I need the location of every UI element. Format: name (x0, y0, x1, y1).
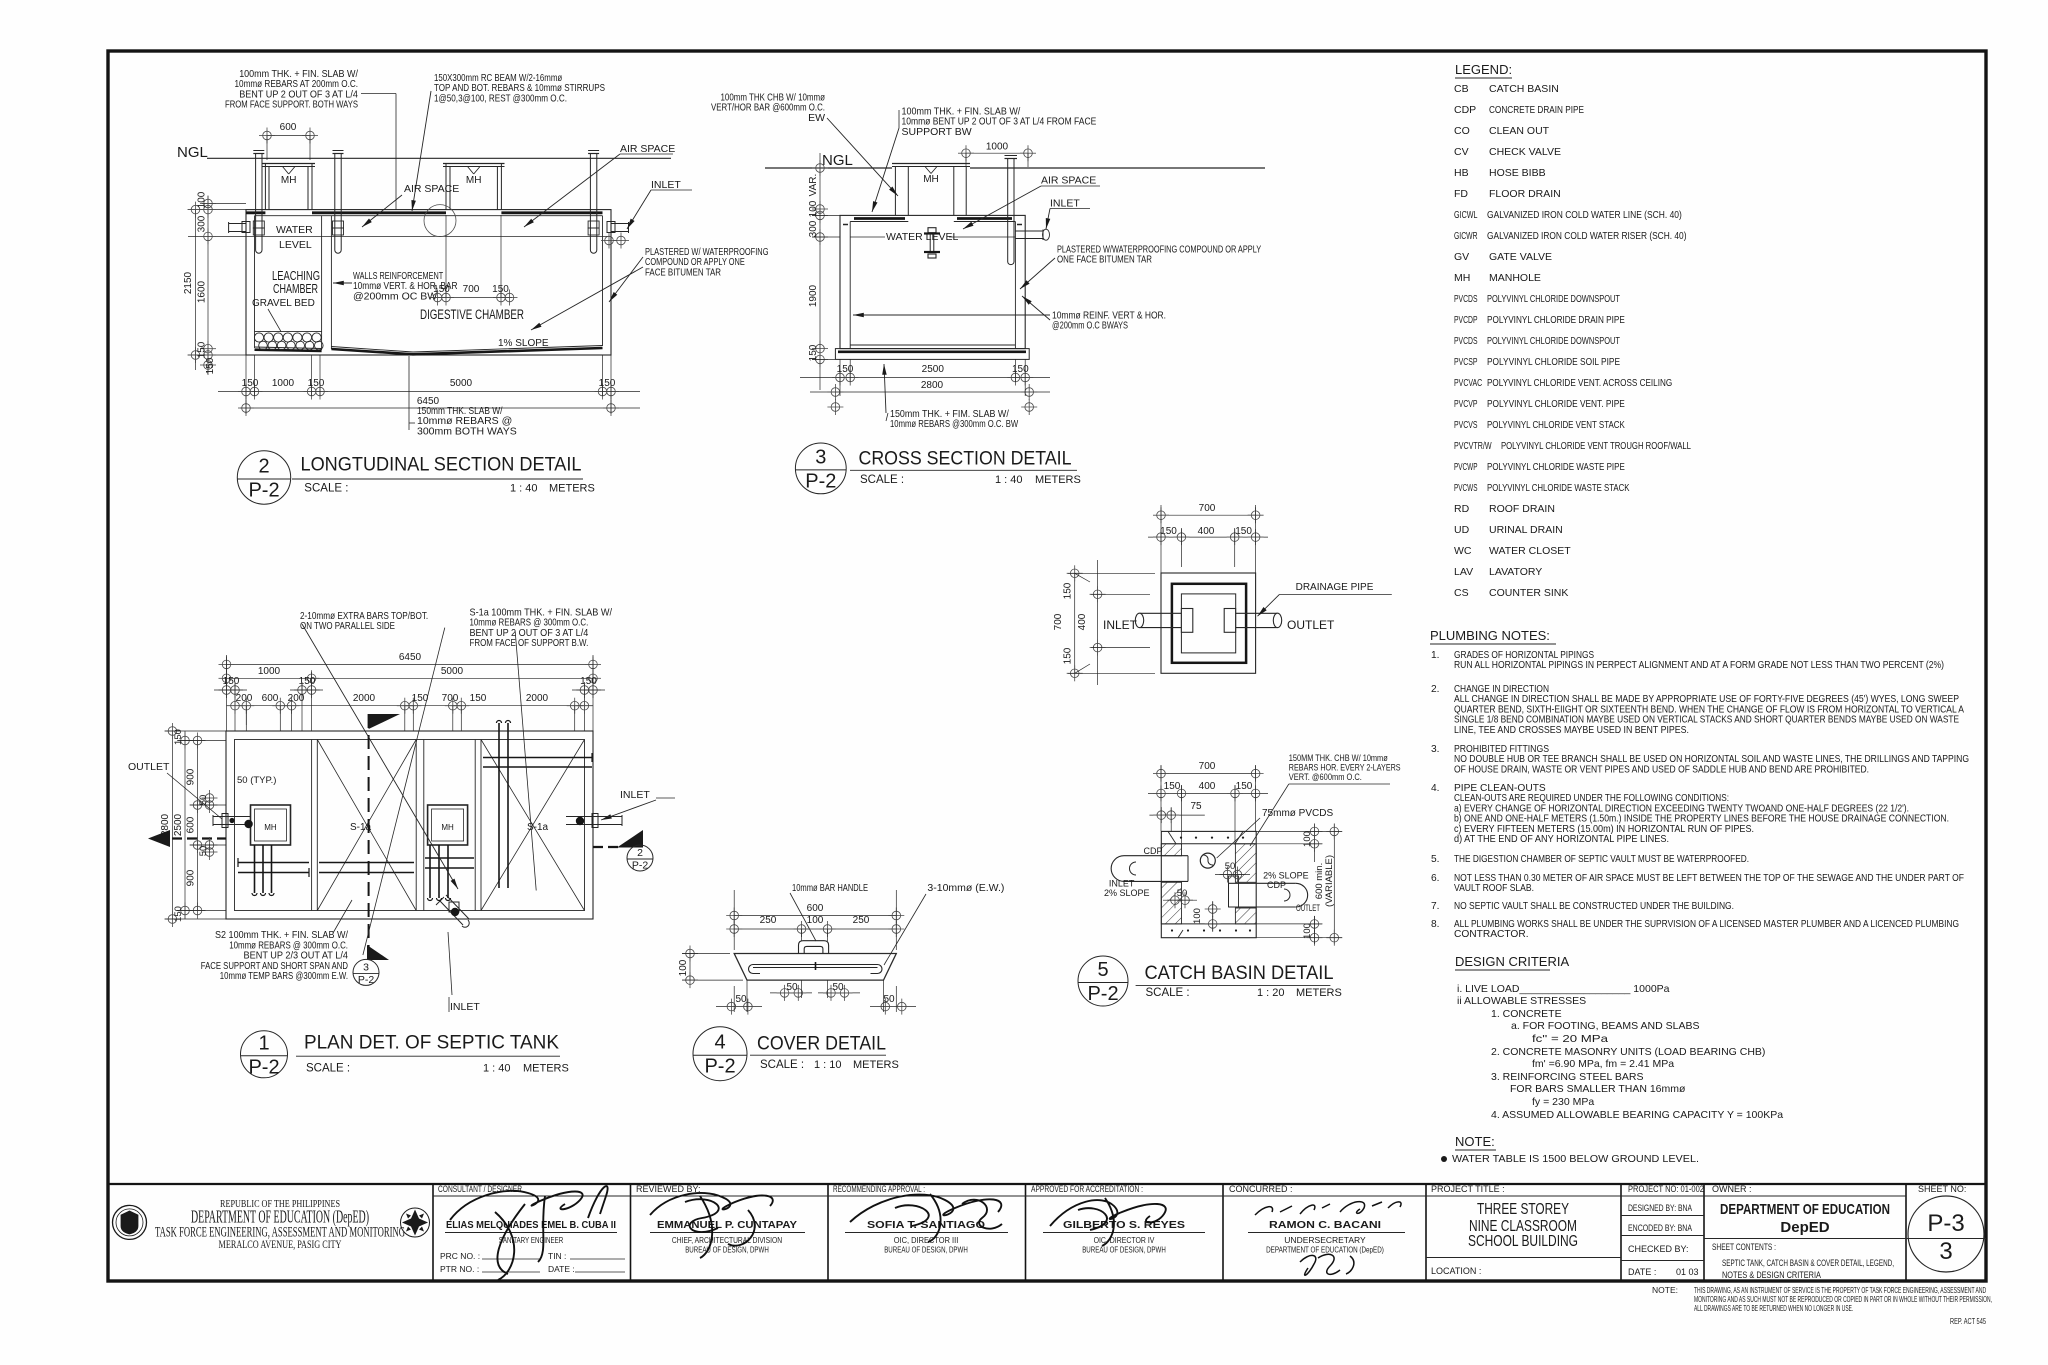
svg-text:150: 150 (197, 341, 208, 358)
svg-text:AIR SPACE: AIR SPACE (1041, 175, 1096, 187)
svg-text:1 : 20: 1 : 20 (1257, 987, 1285, 999)
svg-text:LOCATION :: LOCATION : (1431, 1266, 1481, 1276)
svg-text:600: 600 (807, 903, 824, 914)
svg-text:SCALE :: SCALE : (860, 474, 904, 486)
svg-text:MH: MH (466, 175, 482, 186)
svg-text:150: 150 (808, 344, 819, 361)
cross section: bottom slab (835, 349, 1029, 360)
svg-text:fm' =6.90 MPa, fm = 2.41: fm' =6.90 MPa, fm = 2.41 MPa (1532, 1058, 1674, 1070)
svg-text:1.: 1. (1431, 650, 1440, 661)
svg-text:1 : 40: 1 : 40 (510, 482, 538, 494)
svg-text:2000: 2000 (526, 693, 549, 704)
svg-text:700: 700 (1199, 503, 1216, 514)
cross section: MH shaft walls (894, 167, 896, 216)
svg-text:FLOOR DRAIN: FLOOR DRAIN (1489, 188, 1561, 200)
svg-text:1900: 1900 (808, 284, 819, 307)
svg-text:LEVEL: LEVEL (279, 239, 312, 251)
svg-text:1@50,3@100, REST @300mm O.C.: 1@50,3@100, REST @300mm O.C. (434, 92, 567, 104)
svg-text:INLET: INLET (450, 1001, 480, 1013)
svg-text:INLET: INLET (620, 789, 650, 801)
plan: rebar lines compartment2 (319, 862, 414, 864)
svg-text:THIS DRAWING, AS AN INSTRUMENT: THIS DRAWING, AS AN INSTRUMENT OF SERVIC… (1694, 1286, 1986, 1295)
svg-text:DepED: DepED (1780, 1219, 1829, 1236)
svg-text:6.: 6. (1431, 873, 1440, 884)
svg-text:INLET: INLET (651, 179, 681, 191)
svg-text:fy = 230 MPa: fy = 230 MPa (1532, 1096, 1594, 1108)
svg-text:P-3: P-3 (1927, 1210, 1964, 1237)
svg-text:LONGTUDINAL SECTION DETAIL: LONGTUDINAL SECTION DETAIL (301, 455, 582, 476)
svg-text:NOTES & DESIGN CRITERIA: NOTES & DESIGN CRITERIA (1722, 1270, 1821, 1281)
longitudinal section: air space detail circle (424, 205, 456, 237)
svg-text:WATER CLOSET: WATER CLOSET (1489, 545, 1571, 557)
svg-text:CONCRETE DRAIN PIPE: CONCRETE DRAIN PIPE (1489, 104, 1584, 116)
svg-text:METERS: METERS (853, 1059, 899, 1071)
svg-text:P-2: P-2 (358, 974, 375, 986)
svg-text:400: 400 (1199, 781, 1216, 792)
svg-text:MONITORING AND AS SUCH MUST NO: MONITORING AND AS SUCH MUST NOT BE REPRO… (1694, 1295, 1992, 1304)
svg-text:PVCWP: PVCWP (1454, 461, 1478, 473)
catch basin detail: basin body (1161, 831, 1256, 937)
svg-text:2800: 2800 (921, 380, 944, 391)
svg-text:CLEAN OUT: CLEAN OUT (1489, 125, 1550, 137)
plan: dim row 200/600/200/2000/150/700/150/2000 (227, 705, 594, 707)
svg-text:SEPTIC TANK, CATCH BASIN & COV: SEPTIC TANK, CATCH BASIN & COVER DETAIL,… (1722, 1258, 1894, 1269)
svg-text:3.: 3. (1431, 744, 1440, 755)
svg-text:700: 700 (463, 284, 480, 295)
svg-text:SUPPORT BW: SUPPORT BW (902, 126, 972, 138)
svg-text:URINAL DRAIN: URINAL DRAIN (1489, 524, 1563, 536)
longitudinal section: gravel bed (255, 331, 322, 333)
svg-text:900: 900 (186, 768, 197, 785)
svg-text:P-2: P-2 (248, 1056, 279, 1078)
svg-text:1 : 40: 1 : 40 (995, 474, 1023, 486)
plan: section 2 arrow left (172, 837, 226, 839)
svg-text:GICWL: GICWL (1454, 209, 1478, 221)
svg-text:PVCVAC: PVCVAC (1454, 377, 1482, 389)
svg-text:@200mm O.C BWAYS: @200mm O.C BWAYS (1052, 320, 1128, 332)
svg-text:75mmø PVCDS: 75mmø PVCDS (1262, 808, 1333, 819)
svg-text:1600: 1600 (197, 280, 208, 303)
svg-text:RECOMMENDING APPROVAL :: RECOMMENDING APPROVAL : (833, 1184, 925, 1194)
svg-text:REVIEWED BY:: REVIEWED BY: (636, 1184, 701, 1194)
svg-text:PVCDS: PVCDS (1454, 293, 1478, 305)
svg-text:250: 250 (760, 915, 777, 926)
svg-text:NO SEPTIC VAULT SHALL BE CONST: NO SEPTIC VAULT SHALL BE CONSTRUCTED UND… (1454, 901, 1734, 912)
svg-text:GV: GV (1454, 251, 1469, 263)
svg-text:DRAINAGE PIPE: DRAINAGE PIPE (1296, 582, 1374, 593)
svg-text:OUTLET: OUTLET (1287, 618, 1335, 632)
svg-text:HOSE BIBB: HOSE BIBB (1489, 167, 1546, 179)
svg-text:MERALCO AVENUE, PASIG CITY: MERALCO AVENUE, PASIG CITY (219, 1237, 342, 1251)
svg-text:SCALE :: SCALE : (760, 1059, 804, 1071)
svg-text:4: 4 (714, 1032, 725, 1054)
svg-text:100: 100 (678, 959, 689, 976)
svg-text:LEGEND:: LEGEND: (1455, 62, 1512, 77)
plan: rebar lines compartment3 (429, 845, 431, 898)
plan: rebar lines compartment4 (498, 723, 500, 888)
svg-text:1. CONCRETE: 1. CONCRETE (1491, 1008, 1562, 1020)
cover detail: bar handle (799, 941, 829, 954)
title bubble 3/P-2 cross (795, 443, 846, 494)
svg-text:3: 3 (1939, 1238, 1952, 1265)
svg-text:CV: CV (1454, 146, 1469, 158)
svg-text:POLYVINYL CHLORIDE DOWNSPOUT: POLYVINYL CHLORIDE DOWNSPOUT (1487, 335, 1620, 347)
svg-text:OWNER :: OWNER : (1712, 1184, 1752, 1194)
svg-text:LEACHING: LEACHING (272, 269, 320, 283)
svg-text:UD: UD (1454, 524, 1470, 536)
cross section: bottom dims (800, 377, 1050, 379)
svg-text:WATER TABLE IS 1500 BELOW GROU: WATER TABLE IS 1500 BELOW GROUND LEVEL. (1452, 1153, 1699, 1165)
longitudinal section: vent pipes (255, 154, 257, 251)
plan: rebar lines compartment1 (254, 845, 256, 893)
title block header line (433, 1195, 1906, 1197)
svg-text:OIC, DIRECTOR IV: OIC, DIRECTOR IV (1094, 1235, 1155, 1245)
cross section: water level (850, 236, 1015, 238)
svg-text:POLYVINYL CHLORIDE SOIL PIPE: POLYVINYL CHLORIDE SOIL PIPE (1487, 356, 1620, 368)
catch basin detail: right dims (1314, 824, 1316, 852)
svg-text:200: 200 (288, 693, 305, 704)
svg-text:PVCDP: PVCDP (1454, 314, 1478, 326)
svg-text:CONCURRED :: CONCURRED : (1229, 1184, 1293, 1194)
svg-text:10mmø BAR HANDLE: 10mmø BAR HANDLE (792, 882, 868, 894)
svg-text:LAVATORY: LAVATORY (1489, 566, 1542, 578)
svg-text:MH: MH (923, 174, 939, 185)
svg-text:ON TWO PARALLEL SIDE: ON TWO PARALLEL SIDE (300, 620, 395, 632)
svg-text:1000: 1000 (258, 666, 281, 677)
svg-text:DESIGNED BY: BNA: DESIGNED BY: BNA (1628, 1203, 1692, 1213)
svg-text:DEPARTMENT OF EDUCATION (DepED: DEPARTMENT OF EDUCATION (DepED) (1266, 1245, 1384, 1255)
svg-text:OF HOUSE DRAIN, WASTE OR VENT: OF HOUSE DRAIN, WASTE OR VENT PIPES AND … (1454, 764, 1869, 775)
svg-text:ENCODED BY: BNA: ENCODED BY: BNA (1628, 1223, 1692, 1233)
svg-text:EMMANUEL P. CUNTAPAY: EMMANUEL P. CUNTAPAY (657, 1219, 797, 1231)
svg-text:INLET: INLET (1050, 198, 1080, 210)
svg-text:SHEET NO:: SHEET NO: (1918, 1184, 1966, 1194)
svg-text:OUTLET: OUTLET (128, 761, 170, 773)
svg-text:WATER LEVEL: WATER LEVEL (886, 231, 959, 243)
plan: top dim chains (227, 663, 594, 665)
svg-text:P-2: P-2 (704, 1056, 735, 1078)
svg-text:OUTLET: OUTLET (1296, 903, 1320, 913)
svg-text:700: 700 (1053, 613, 1064, 630)
catch basin detail: outlet pipe right (1229, 882, 1296, 884)
svg-text:ALL DRAWINGS ARE TO BE RETURNE: ALL DRAWINGS ARE TO BE RETURNED WHEN NO … (1694, 1304, 1853, 1313)
consultant signature (450, 1186, 608, 1280)
svg-text:WATER: WATER (276, 224, 313, 236)
svg-text:VERT. @600mm O.C.: VERT. @600mm O.C. (1289, 772, 1362, 783)
svg-text:GILBERTO S. REYES: GILBERTO S. REYES (1063, 1219, 1185, 1231)
svg-text:GALVANIZED IRON COLD WATER RIS: GALVANIZED IRON COLD WATER RISER (SCH. 4… (1487, 230, 1687, 242)
svg-text:CHAMBER: CHAMBER (273, 282, 318, 296)
svg-text:5.: 5. (1431, 854, 1440, 865)
catch basin detail: inlet pipe left (1124, 855, 1188, 857)
svg-text:600: 600 (186, 816, 197, 833)
svg-text:INLET: INLET (1109, 879, 1135, 889)
svg-text:i. LIVE LOAD_________________: i. LIVE LOAD___________________ 1000Pa (1457, 983, 1670, 995)
svg-text:2: 2 (258, 456, 269, 478)
svg-text:50: 50 (786, 982, 798, 993)
svg-text:1000: 1000 (272, 378, 295, 389)
svg-text:SCALE :: SCALE : (304, 482, 348, 494)
svg-text:CDP: CDP (1267, 880, 1286, 890)
svg-text:CONSULTANT / DESIGNER: CONSULTANT / DESIGNER (438, 1184, 522, 1194)
svg-text:CROSS SECTION DETAIL: CROSS SECTION DETAIL (859, 449, 1072, 470)
concurred signature bottom (1300, 1254, 1354, 1275)
svg-text:BUREAU OF DESIGN, DPWH: BUREAU OF DESIGN, DPWH (1082, 1245, 1166, 1255)
svg-text:CDP: CDP (1454, 104, 1476, 116)
catch basin plan: inlet pipe (1140, 612, 1193, 614)
svg-text:PLAN DET. OF SEPTIC TANK: PLAN DET. OF SEPTIC TANK (304, 1033, 559, 1054)
plan: X braces (317, 740, 416, 911)
svg-text:PVCVTR/W: PVCVTR/W (1454, 440, 1492, 452)
svg-text:NGL: NGL (822, 152, 853, 169)
svg-text:DEPARTMENT OF EDUCATION: DEPARTMENT OF EDUCATION (1720, 1201, 1890, 1218)
svg-text:PTR NO. :: PTR NO. : (440, 1264, 479, 1274)
svg-text:3. REINFORCING STEEL BARS: 3. REINFORCING STEEL BARS (1491, 1071, 1643, 1083)
svg-text:2150: 2150 (183, 271, 194, 294)
svg-text:1 : 10: 1 : 10 (814, 1059, 842, 1071)
svg-text:300mm BOTH WAYS: 300mm BOTH WAYS (417, 425, 517, 437)
cross section: inlet pipe and drop pipe (1015, 230, 1043, 232)
DepED seal (113, 1205, 147, 1239)
svg-text:700: 700 (442, 693, 459, 704)
svg-text:@200mm OC BW: @200mm OC BW (353, 290, 437, 302)
svg-text:fc'' = 20 MPa: fc'' = 20 MPa (1532, 1033, 1608, 1045)
svg-text:POLYVINYL CHLORIDE DOWNSPOUT: POLYVINYL CHLORIDE DOWNSPOUT (1487, 293, 1620, 305)
recommending signature (850, 1194, 1002, 1242)
svg-text:DIGESTIVE CHAMBER: DIGESTIVE CHAMBER (420, 307, 524, 322)
svg-text:SCALE :: SCALE : (306, 1063, 350, 1075)
svg-text:PLUMBING NOTES:: PLUMBING NOTES: (1430, 628, 1550, 643)
svg-text:FROM FACE OF SUPPORT B.W.: FROM FACE OF SUPPORT B.W. (470, 637, 589, 649)
svg-text:100: 100 (1302, 831, 1313, 847)
svg-text:METERS: METERS (549, 482, 595, 494)
svg-text:600: 600 (262, 693, 279, 704)
longitudinal section: manhole MH1 shaft (264, 164, 266, 210)
svg-text:MH: MH (281, 175, 297, 186)
svg-text:AIR SPACE: AIR SPACE (404, 183, 459, 195)
svg-text:ii ALLOWABLE STRESSES: ii ALLOWABLE STRESSES (1457, 995, 1586, 1007)
svg-text:GRAVEL BED: GRAVEL BED (252, 298, 315, 309)
svg-text:CHIEF, ARCHITECTURAL DIVISION: CHIEF, ARCHITECTURAL DIVISION (672, 1235, 782, 1245)
concurred signature top (1255, 1202, 1401, 1215)
plan: tank outer walls (226, 731, 593, 919)
svg-text:POLYVINYL CHLORIDE DRAIN PIPE: POLYVINYL CHLORIDE DRAIN PIPE (1487, 314, 1625, 326)
svg-text:150: 150 (580, 676, 597, 687)
svg-text:NGL: NGL (177, 144, 208, 161)
svg-text:PROJECT NO: 01-002: PROJECT NO: 01-002 (1628, 1184, 1704, 1194)
svg-text:RUN ALL HORIZONTAL PIPINGS IN: RUN ALL HORIZONTAL PIPINGS IN PERPECT AL… (1454, 660, 1944, 671)
svg-text:CS: CS (1454, 587, 1469, 599)
svg-text:OIC, DIRECTOR III: OIC, DIRECTOR III (894, 1235, 959, 1245)
title bubble 4/P-2 cover (693, 1027, 747, 1081)
longitudinal section: bottom slab note (408, 356, 410, 430)
svg-text:FD: FD (1454, 188, 1468, 200)
svg-text:P-2: P-2 (805, 470, 836, 492)
svg-text:2. CONCRETE MASONRY UNITS (LO: 2. CONCRETE MASONRY UNITS (LOAD BEARING … (1491, 1046, 1765, 1058)
svg-text:150: 150 (173, 906, 184, 922)
svg-text:PVCVP: PVCVP (1454, 398, 1478, 410)
svg-text:METERS: METERS (523, 1063, 569, 1075)
approved signature (1050, 1198, 1166, 1246)
svg-text:MH: MH (1454, 272, 1470, 284)
svg-text:150: 150 (1063, 582, 1074, 599)
svg-text:MH: MH (264, 823, 277, 832)
svg-text:4. ASSUMED ALLOWABLE BEARING: 4. ASSUMED ALLOWABLE BEARING CAPACITY Y … (1491, 1109, 1783, 1121)
svg-text:POLYVINYL CHLORIDE WASTE PIPE: POLYVINYL CHLORIDE WASTE PIPE (1487, 461, 1625, 473)
svg-text:METERS: METERS (1035, 474, 1081, 486)
svg-text:TIN :: TIN : (548, 1251, 566, 1261)
svg-text:2.: 2. (1431, 684, 1440, 695)
svg-text:RD: RD (1454, 503, 1470, 515)
svg-text:3-10mmø (E.W.): 3-10mmø (E.W.) (927, 882, 1004, 894)
svg-text:FROM FACE SUPPORT. BOTH WAYS: FROM FACE SUPPORT. BOTH WAYS (225, 99, 358, 111)
svg-text:POLYVINYL CHLORIDE VENT STACK: POLYVINYL CHLORIDE VENT STACK (1487, 419, 1625, 431)
plan: section 2 marker right (593, 846, 618, 848)
svg-text:HB: HB (1454, 167, 1469, 179)
svg-text:2500: 2500 (173, 813, 184, 836)
cover detail: cover trapezoid (734, 954, 896, 981)
svg-text:10mmø TEMP BARS @300mm E.W.: 10mmø TEMP BARS @300mm E.W. (220, 970, 348, 982)
svg-text:150: 150 (470, 693, 487, 704)
longitudinal section: manhole MH2 shaft (445, 164, 447, 210)
svg-text:600: 600 (280, 122, 297, 133)
svg-text:GALVANIZED IRON COLD WATER LIN: GALVANIZED IRON COLD WATER LINE (SCH. 40… (1487, 209, 1682, 221)
svg-text:50: 50 (198, 846, 209, 857)
catch basin plan: left dims (1074, 573, 1076, 673)
plan: long diagonal leaders (302, 624, 458, 889)
cover detail: 100 dim left (689, 954, 691, 981)
svg-text:150: 150 (1160, 526, 1177, 537)
svg-text:150: 150 (1235, 526, 1252, 537)
svg-text:4.: 4. (1431, 783, 1440, 794)
svg-text:DEPARTMENT OF EDUCATION (DepE: DEPARTMENT OF EDUCATION (DepED) (191, 1207, 369, 1227)
svg-text:150: 150 (1012, 364, 1029, 375)
svg-text:100: 100 (808, 200, 819, 217)
svg-text:SANITARY ENGINEER: SANITARY ENGINEER (499, 1235, 564, 1245)
svg-text:PVCVS: PVCVS (1454, 419, 1478, 431)
svg-text:10mmø REBARS @300mm O.C. BW: 10mmø REBARS @300mm O.C. BW (890, 418, 1018, 430)
svg-text:NOTE:: NOTE: (1652, 1285, 1678, 1295)
svg-text:6450: 6450 (399, 652, 422, 663)
svg-text:150: 150 (223, 676, 240, 687)
svg-text:5000: 5000 (441, 666, 464, 677)
svg-text:150: 150 (242, 378, 259, 389)
svg-text:CDP: CDP (1144, 846, 1163, 856)
svg-text:150: 150 (1063, 647, 1074, 664)
title block frame (108, 1183, 1986, 1185)
cover detail: embedded rebar with hooks (753, 964, 878, 966)
svg-text:CATCH BASIN DETAIL: CATCH BASIN DETAIL (1145, 963, 1334, 984)
svg-text:SCHOOL BUILDING: SCHOOL BUILDING (1468, 1233, 1578, 1250)
title bubble 1/P-2 plan (241, 1031, 288, 1078)
catch basin plan: concentric squares (1161, 573, 1256, 673)
catch basin detail: pipe section circle (1200, 853, 1215, 868)
svg-text:1: 1 (258, 1032, 269, 1054)
svg-text:NOTE:: NOTE: (1455, 1134, 1495, 1149)
svg-text:P-2: P-2 (632, 860, 649, 872)
cross section: tank outline (840, 215, 1025, 348)
svg-text:d) AT THE END OF ANY HORIZONTA: d) AT THE END OF ANY HORIZONTAL PIPE LIN… (1454, 834, 1669, 845)
svg-text:POLYVINYL CHLORIDE VENT TROUGH: POLYVINYL CHLORIDE VENT TROUGH ROOF/WALL (1501, 440, 1691, 452)
title bubble 2/P-2 longitudinal (237, 451, 290, 504)
svg-text:900: 900 (186, 869, 197, 886)
svg-text:SCALE :: SCALE : (1146, 987, 1190, 999)
svg-text:a. FOR FOOTING, BEAMS AND SLA: a. FOR FOOTING, BEAMS AND SLABS (1511, 1020, 1699, 1032)
svg-text:(VARIABLE): (VARIABLE) (1324, 855, 1335, 907)
svg-text:GATE VALVE: GATE VALVE (1489, 251, 1552, 263)
svg-text:50: 50 (832, 982, 844, 993)
svg-text:5000: 5000 (450, 378, 473, 389)
svg-text:FOR BARS SMALLER THAN 16mmø: FOR BARS SMALLER THAN 16mmø (1510, 1083, 1686, 1095)
svg-text:150: 150 (299, 676, 316, 687)
svg-text:2: 2 (637, 847, 643, 859)
svg-text:ELIAS MELQUIADES EMEL B. CUBA: ELIAS MELQUIADES EMEL B. CUBA II (446, 1219, 616, 1231)
svg-text:PVCSP: PVCSP (1454, 356, 1478, 368)
svg-text:P-2: P-2 (248, 480, 279, 502)
svg-text:BUREAU OF DESIGN, DPWH: BUREAU OF DESIGN, DPWH (685, 1245, 769, 1255)
plan: manhole MH1 square (251, 805, 291, 845)
svg-text:SHEET CONTENTS :: SHEET CONTENTS : (1712, 1242, 1776, 1252)
svg-text:400: 400 (1198, 526, 1215, 537)
svg-text:CB: CB (1454, 83, 1469, 95)
svg-text:150: 150 (837, 364, 854, 375)
longitudinal section: bottom dim chain (218, 391, 640, 393)
svg-text:150: 150 (599, 378, 616, 389)
svg-text:75: 75 (1190, 801, 1202, 812)
plan: left dim chains (171, 731, 173, 919)
longitudinal section: outlet pipe stub left (229, 223, 246, 225)
catch basin plan: outlet pipe (1224, 612, 1277, 614)
cross section: float valve symbol (928, 228, 936, 233)
svg-text:200: 200 (236, 693, 253, 704)
svg-text:MANHOLE: MANHOLE (1489, 272, 1541, 284)
svg-text:50 (TYP.): 50 (TYP.) (237, 775, 276, 786)
svg-text:150: 150 (308, 378, 325, 389)
svg-text:WC: WC (1454, 545, 1472, 557)
svg-text:3: 3 (363, 961, 369, 973)
svg-text:PROJECT TITLE :: PROJECT TITLE : (1431, 1184, 1505, 1194)
longitudinal section: thick slab/rebar bands (246, 211, 265, 214)
cross section: left dim chain (819, 153, 821, 390)
svg-text:5: 5 (1097, 959, 1108, 981)
svg-text:150: 150 (205, 357, 216, 374)
svg-text:CONTRACTOR.: CONTRACTOR. (1454, 929, 1529, 940)
svg-text:01 03: 01 03 (1676, 1267, 1699, 1277)
svg-text:UNDERSECRETARY: UNDERSECRETARY (1284, 1235, 1366, 1245)
svg-text:2500: 2500 (922, 364, 945, 375)
plan: manhole MH2 square (428, 805, 468, 845)
svg-text:PRC NO. :: PRC NO. : (440, 1251, 480, 1261)
svg-text:CO: CO (1454, 125, 1470, 137)
svg-text:2% SLOPE: 2% SLOPE (1263, 871, 1309, 881)
svg-text:RAMON C. BACANI: RAMON C. BACANI (1269, 1219, 1381, 1231)
svg-text:3: 3 (815, 446, 826, 468)
svg-text:100: 100 (1192, 908, 1203, 924)
svg-text:2800: 2800 (160, 813, 171, 836)
reviewed signature (650, 1193, 773, 1258)
svg-text:1 : 40: 1 : 40 (483, 1063, 511, 1075)
svg-text:CHECK VALVE: CHECK VALVE (1489, 146, 1561, 158)
svg-text:300: 300 (197, 215, 208, 232)
longitudinal section: left dim chain (195, 210, 197, 370)
svg-text:ALL PLUMBING WORKS SHALL BE UN: ALL PLUMBING WORKS SHALL BE UNDER THE SU… (1454, 919, 1959, 930)
svg-text:POLYVINYL CHLORIDE WASTE STACK: POLYVINYL CHLORIDE WASTE STACK (1487, 482, 1630, 494)
plan: compartment dividers (311, 740, 313, 911)
svg-text:VAR.: VAR. (808, 174, 819, 197)
title bubble 5/P-2 catch basin (1078, 956, 1128, 1006)
longitudinal section: water level line (246, 235, 611, 237)
svg-text:2000: 2000 (353, 693, 376, 704)
